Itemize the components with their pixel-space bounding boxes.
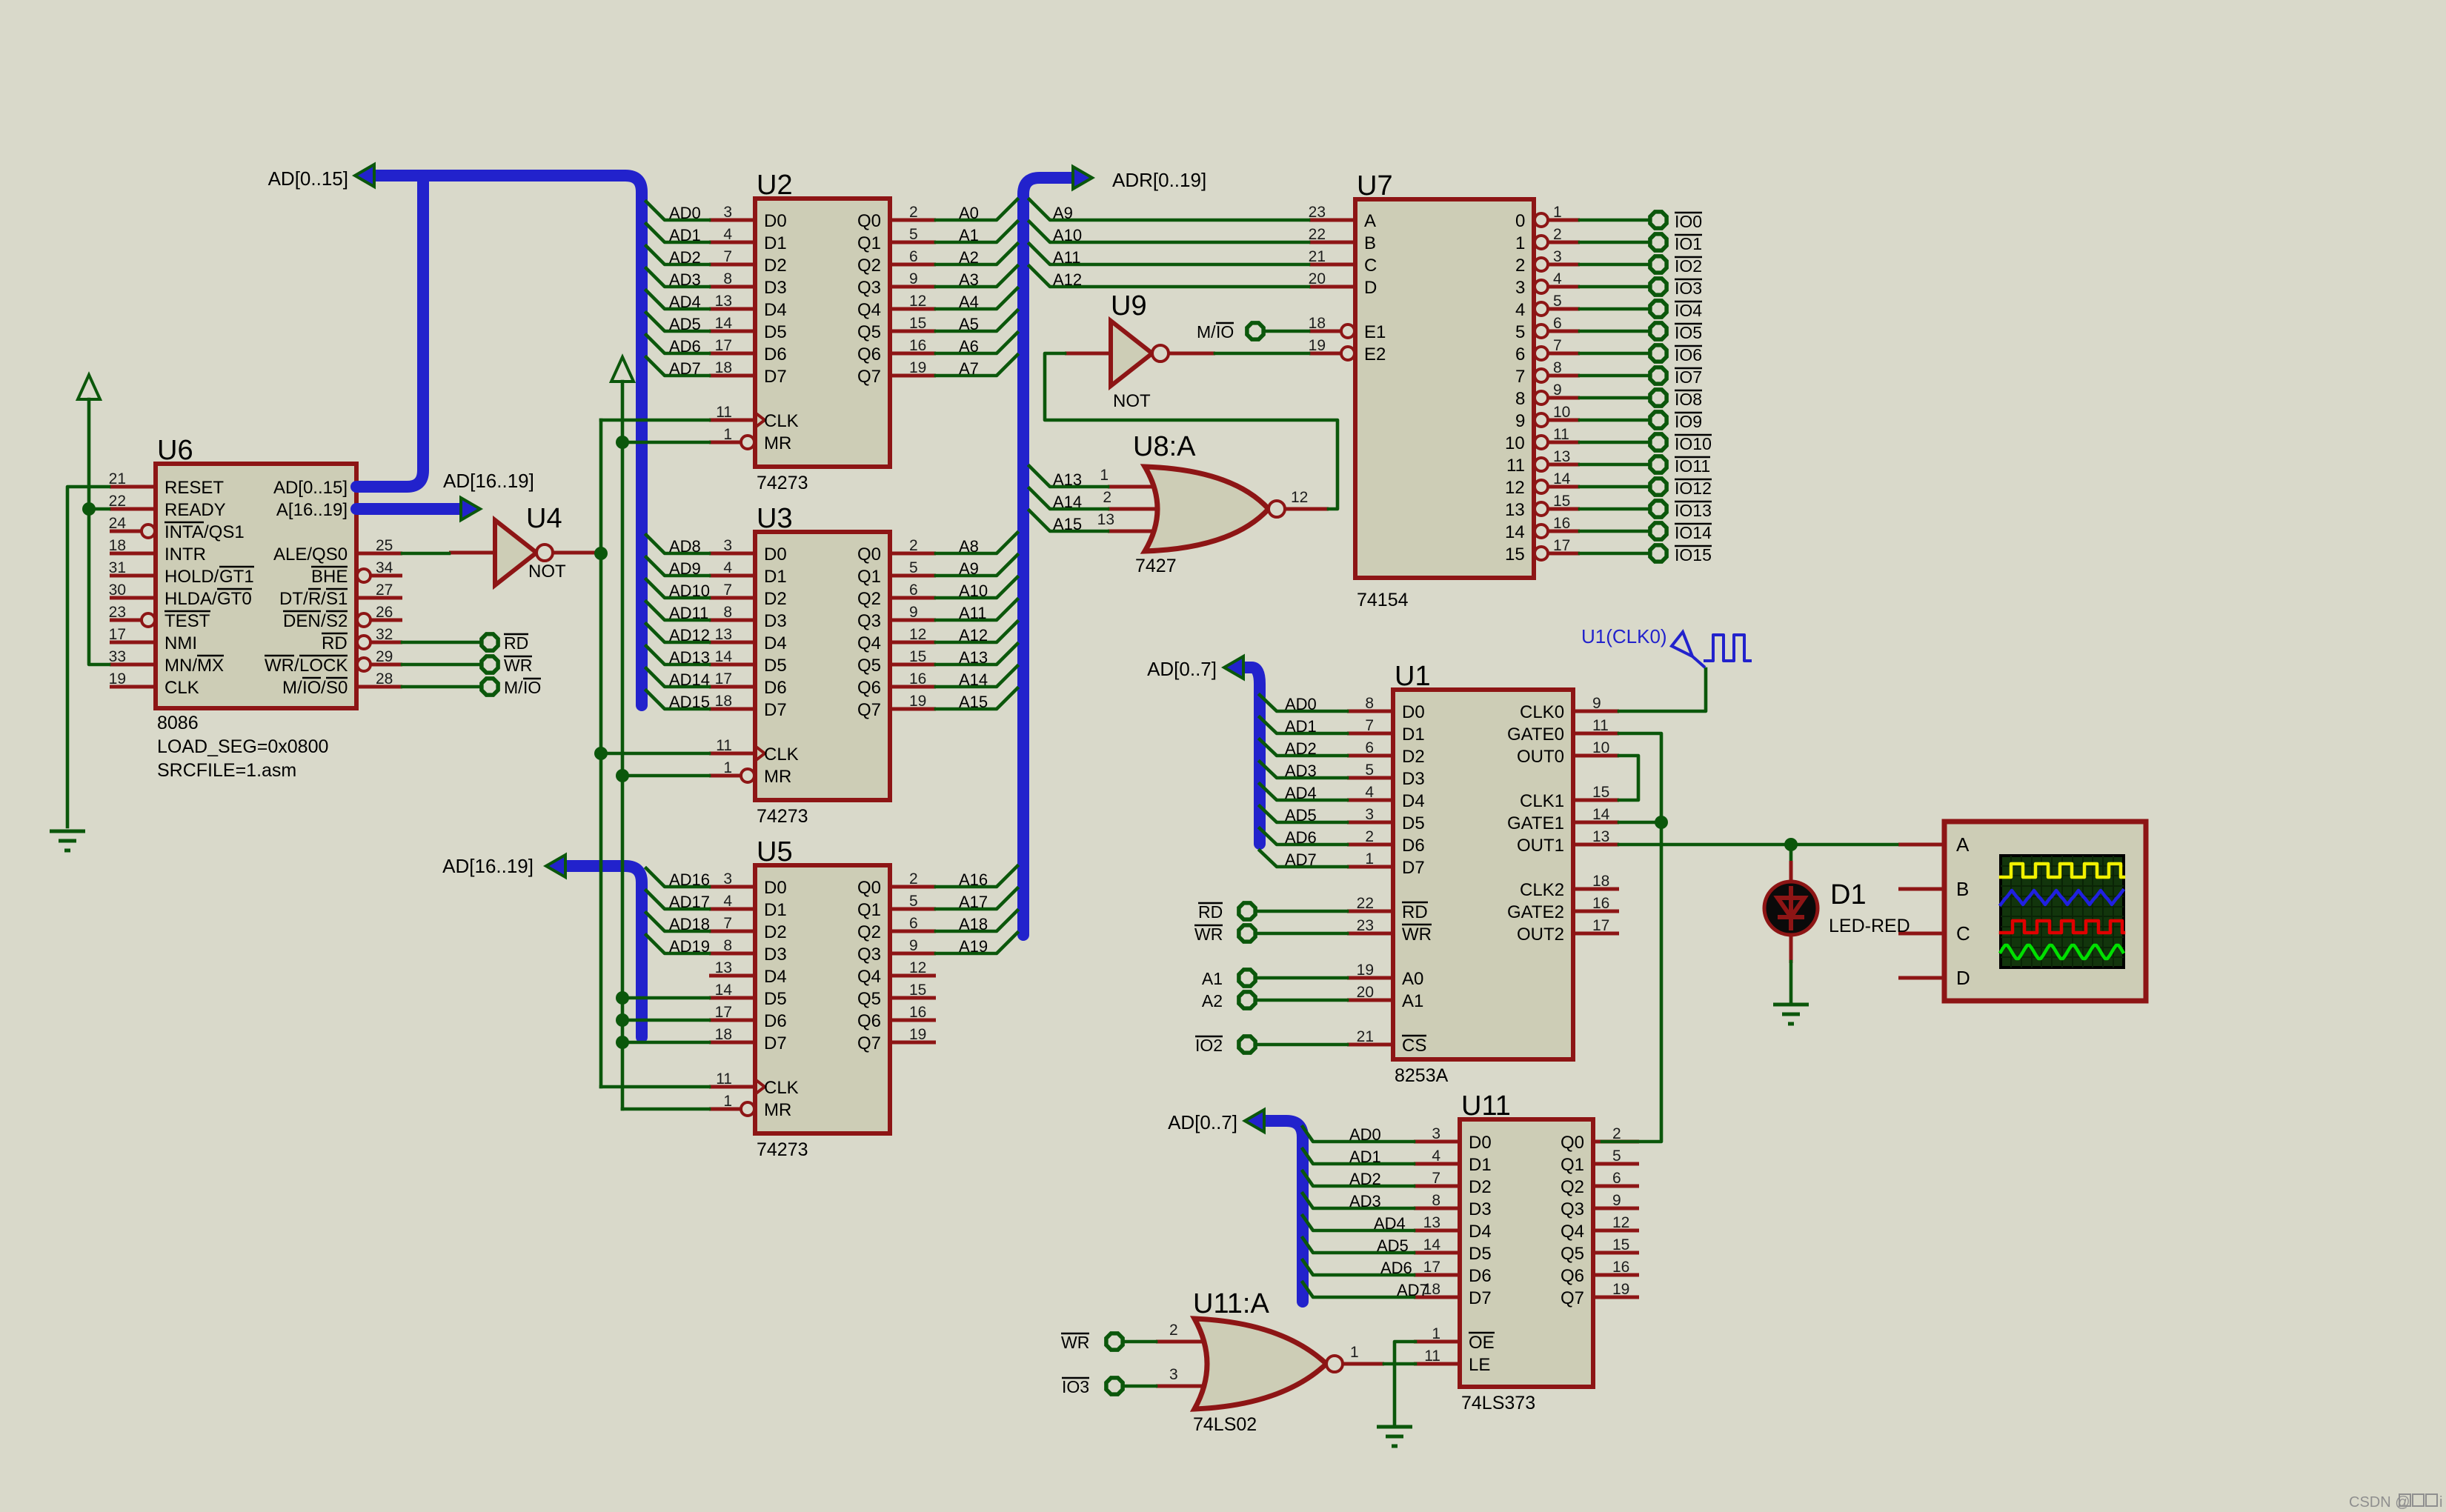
svg-text:IO0: IO0 [1675, 212, 1702, 231]
svg-text:AD1: AD1 [1285, 717, 1317, 736]
watermark CSDN [2349, 1494, 2442, 1511]
wire U7 output 7 to terminal IO7 [1580, 374, 1650, 378]
terminal IO15 at U7 output 15 [1650, 545, 1712, 564]
wire A1 from U2 Q1 to ADR bus [936, 222, 1017, 244]
svg-text:28: 28 [376, 670, 393, 687]
svg-text:11: 11 [716, 404, 732, 421]
svg-text:D4: D4 [764, 633, 787, 653]
svg-text:3: 3 [1432, 1125, 1440, 1142]
svg-text:3: 3 [723, 204, 732, 221]
svg-text:Q5: Q5 [857, 656, 881, 676]
svg-text:22: 22 [109, 493, 126, 510]
svg-text:IO6: IO6 [1675, 345, 1702, 364]
svg-text:A14: A14 [1053, 493, 1082, 511]
svg-text:22: 22 [1309, 226, 1326, 243]
svg-text:Q0: Q0 [857, 878, 881, 898]
wire AD2 bus tap to U2 D2 [646, 246, 709, 267]
svg-text:E2: E2 [1364, 344, 1386, 364]
svg-text:8: 8 [723, 270, 732, 287]
svg-text:2: 2 [1103, 489, 1111, 506]
svg-text:D0: D0 [1469, 1133, 1492, 1153]
svg-text:1: 1 [723, 426, 732, 443]
wire U6 M/IO to terminal [402, 685, 482, 689]
svg-text:5: 5 [1365, 762, 1374, 779]
wire U6 ALE through U4 to latch clocks [402, 552, 601, 556]
svg-text:WR: WR [1402, 925, 1432, 945]
svg-text:7: 7 [723, 248, 732, 265]
74273 latch U2 [709, 170, 936, 493]
wire AD1 bus tap to U1 D1 [1260, 717, 1347, 736]
svg-text:74273: 74273 [757, 806, 808, 827]
terminal RD at U1 [1198, 902, 1255, 922]
svg-text:34: 34 [376, 559, 393, 576]
svg-text:3: 3 [1553, 248, 1562, 265]
svg-text:D6: D6 [1469, 1266, 1492, 1286]
terminal RD near U6 [482, 633, 528, 653]
svg-text:IO: IO [523, 678, 541, 697]
wire A10 ADR bus to U7 pin 22 [1029, 222, 1309, 244]
bus AD[0..7] into U11 with arrow and label [1168, 1110, 1303, 1302]
svg-text:Q3: Q3 [857, 611, 881, 631]
svg-text:U4: U4 [526, 503, 562, 534]
wire AD10 bus tap to U3 D2 [646, 579, 710, 600]
bus A[16..19] from U6 with arrow and label AD[16..19] [356, 470, 534, 520]
svg-text:3: 3 [1515, 278, 1525, 298]
wire A19 from U5 Q3 to ADR bus [936, 933, 1017, 956]
svg-text:12: 12 [909, 293, 926, 310]
svg-text:32: 32 [376, 626, 393, 643]
terminal IO2 at U7 output 2 [1650, 256, 1702, 276]
svg-text:Q0: Q0 [857, 544, 881, 564]
svg-text:16: 16 [1553, 515, 1570, 532]
svg-text:ALE/QS0: ALE/QS0 [273, 544, 348, 564]
svg-text:A: A [1364, 211, 1376, 231]
wire AD6 bus tap to U1 D6 [1260, 828, 1347, 847]
svg-text:25: 25 [376, 537, 393, 554]
svg-text:14: 14 [715, 648, 733, 665]
74LS373 latch U11 [1414, 1090, 1639, 1413]
svg-text:IO7: IO7 [1675, 367, 1702, 387]
svg-text:11: 11 [1592, 717, 1609, 734]
svg-text:Q4: Q4 [857, 967, 881, 987]
svg-text:/: / [321, 589, 326, 609]
ground symbol below U6 RESET [50, 831, 85, 850]
svg-text:B: B [1956, 878, 1969, 900]
svg-text:AD6: AD6 [1380, 1259, 1412, 1277]
svg-text:5: 5 [909, 893, 918, 910]
wire U11 OE to ground [1395, 1342, 1415, 1424]
svg-text:D2: D2 [764, 589, 787, 609]
wire A15 ADR bus to U8:A input [1029, 510, 1108, 533]
svg-text:GATE2: GATE2 [1507, 902, 1564, 922]
svg-text:D6: D6 [1402, 836, 1425, 856]
svg-text:D4: D4 [1469, 1222, 1492, 1242]
svg-text:19: 19 [109, 670, 126, 687]
terminal IO7 at U7 output 7 [1650, 367, 1702, 387]
svg-text:IO: IO [302, 678, 321, 698]
wire AD5 bus tap to U2 D5 [646, 313, 709, 333]
terminal IO3 at U11:A input [1062, 1377, 1123, 1396]
svg-text:AD0: AD0 [669, 204, 701, 222]
svg-text:7: 7 [1365, 717, 1374, 734]
svg-text:16: 16 [909, 1004, 926, 1021]
svg-text:LE: LE [1469, 1355, 1490, 1375]
svg-text:S1: S1 [326, 589, 348, 609]
wire AD17 bus tap to U5 D1 [646, 890, 710, 911]
svg-text:11: 11 [1553, 426, 1569, 443]
wire AD0 bus tap to U2 D0 [646, 202, 709, 222]
svg-text:D1: D1 [1830, 879, 1867, 910]
svg-text:NOT: NOT [528, 562, 566, 582]
svg-text:16: 16 [909, 337, 926, 354]
terminal IO1 at U7 output 1 [1650, 234, 1702, 253]
wire U7 output 13 to terminal IO13 [1580, 507, 1650, 511]
wire A11 ADR bus to U7 pin 21 [1029, 244, 1309, 267]
svg-text:Q0: Q0 [857, 211, 881, 231]
wire A7 from U2 Q7 to ADR bus [936, 355, 1017, 378]
svg-text:AD2: AD2 [1285, 739, 1317, 758]
svg-text:Q5: Q5 [857, 322, 881, 342]
svg-text:OUT2: OUT2 [1517, 925, 1564, 945]
svg-text:AD[16..19]: AD[16..19] [442, 855, 534, 877]
svg-text:GATE1: GATE1 [1507, 813, 1564, 833]
svg-text:74LS373: 74LS373 [1461, 1393, 1535, 1413]
svg-text:AD2: AD2 [669, 248, 701, 267]
svg-text:19: 19 [909, 359, 926, 376]
svg-text:IO2: IO2 [1675, 256, 1702, 276]
svg-text:AD15: AD15 [669, 693, 710, 711]
svg-text:6: 6 [909, 915, 918, 932]
svg-text:Q7: Q7 [1561, 1288, 1584, 1308]
svg-text:13: 13 [715, 293, 732, 310]
svg-text:D6: D6 [764, 678, 787, 698]
wire A6 from U2 Q6 to ADR bus [936, 333, 1017, 356]
svg-text:31: 31 [109, 559, 126, 576]
svg-text:2: 2 [1169, 1322, 1178, 1339]
ground symbol below U11 OE [1377, 1427, 1412, 1446]
svg-text:A: A [1956, 833, 1970, 856]
svg-text:12: 12 [1612, 1214, 1629, 1231]
svg-text:U8:A: U8:A [1133, 431, 1196, 462]
terminal IO0 at U7 output 0 [1650, 212, 1702, 231]
svg-text:5: 5 [1553, 293, 1562, 310]
svg-text:IO3: IO3 [1062, 1377, 1089, 1396]
svg-text:M/: M/ [504, 678, 523, 697]
svg-text:2: 2 [909, 870, 918, 887]
svg-text:A3: A3 [959, 270, 979, 289]
svg-text:A9: A9 [1053, 204, 1073, 222]
svg-text:CLK1: CLK1 [1520, 791, 1564, 811]
svg-text:CLK: CLK [764, 1078, 799, 1098]
svg-text:D7: D7 [764, 367, 787, 387]
wire U9 output to U7 E2 [1215, 352, 1309, 356]
wire AD19 bus tap to U5 D3 [646, 935, 710, 956]
svg-text:8: 8 [1432, 1192, 1440, 1209]
svg-text:AD7: AD7 [1397, 1281, 1429, 1299]
svg-text:A4: A4 [959, 293, 979, 311]
svg-text:D7: D7 [1469, 1288, 1492, 1308]
svg-text:Q7: Q7 [857, 1033, 881, 1053]
svg-text:11: 11 [1506, 456, 1525, 476]
svg-text:9: 9 [1515, 411, 1525, 431]
svg-text:U1(CLK0): U1(CLK0) [1581, 625, 1667, 647]
svg-text:20: 20 [1309, 270, 1326, 287]
svg-text:0: 0 [1515, 211, 1525, 231]
wire U7 output 9 to terminal IO9 [1580, 419, 1650, 422]
svg-text:23: 23 [1309, 204, 1326, 221]
svg-text:AD7: AD7 [1285, 850, 1317, 869]
svg-text:19: 19 [1357, 962, 1374, 979]
svg-text:AD3: AD3 [1349, 1192, 1381, 1210]
svg-text:ADR[0..19]: ADR[0..19] [1112, 169, 1206, 191]
svg-text:RD: RD [1402, 902, 1428, 922]
wire LED D1 anode from OUT1 junction [1789, 845, 1793, 882]
wire A17 from U5 Q1 to ADR bus [936, 888, 1017, 911]
svg-text:IO9: IO9 [1675, 412, 1702, 431]
svg-text:CSDN @: CSDN @ [2349, 1494, 2410, 1511]
svg-text:IO15: IO15 [1675, 545, 1712, 564]
svg-text:OUT0: OUT0 [1517, 747, 1564, 767]
svg-text:RD: RD [504, 633, 528, 653]
svg-text:D1: D1 [764, 900, 787, 920]
svg-text:1: 1 [723, 759, 732, 776]
wire AD7 bus tap to U2 D7 [646, 357, 709, 378]
svg-text:74273: 74273 [757, 1139, 808, 1160]
svg-text:12: 12 [909, 959, 926, 976]
svg-text:WR: WR [265, 656, 294, 676]
svg-text:U3: U3 [757, 503, 793, 534]
svg-text:AD4: AD4 [1285, 784, 1317, 802]
wire LED D1 cathode to ground [1789, 934, 1793, 1002]
svg-text:2: 2 [909, 537, 918, 554]
svg-text:D4: D4 [764, 300, 787, 320]
svg-text:17: 17 [1592, 917, 1609, 934]
svg-text:Q2: Q2 [857, 256, 881, 276]
svg-text:30: 30 [109, 582, 126, 599]
terminal IO10 at U7 output 10 [1650, 434, 1712, 453]
svg-text:A1: A1 [959, 226, 979, 244]
svg-text:17: 17 [715, 1004, 732, 1021]
wire U6 WR/LOCK to terminal [402, 663, 482, 667]
svg-text:CLK: CLK [164, 678, 199, 698]
svg-text:U1: U1 [1395, 661, 1431, 692]
svg-text:D5: D5 [1469, 1244, 1492, 1264]
wire U7 output 8 to terminal IO8 [1580, 396, 1650, 400]
wire WR terminal to U1 [1255, 932, 1347, 936]
svg-text:7: 7 [1553, 337, 1562, 354]
svg-text:A11: A11 [1053, 248, 1081, 267]
inverter U9 (NOT) with labels [1065, 290, 1215, 411]
svg-text:D6: D6 [764, 1011, 787, 1031]
wire A15 from U3 Q7 to ADR bus [936, 688, 1017, 711]
svg-text:15: 15 [909, 648, 926, 665]
svg-text:AD19: AD19 [669, 937, 710, 956]
svg-text:CS: CS [1402, 1036, 1426, 1056]
svg-text:6: 6 [1612, 1170, 1621, 1187]
svg-text:HLDA/: HLDA/ [164, 589, 217, 609]
ground symbol below LED D1 [1773, 1005, 1809, 1024]
svg-text:LOCK: LOCK [299, 656, 348, 676]
svg-text:Q1: Q1 [857, 567, 881, 587]
wire U7 output 1 to terminal IO1 [1580, 241, 1650, 244]
svg-text:TEST: TEST [164, 611, 210, 631]
terminal WR at U1 [1194, 925, 1255, 944]
wire U7 output 12 to terminal IO12 [1580, 485, 1650, 489]
svg-text:12: 12 [1505, 478, 1525, 498]
svg-text:74LS02: 74LS02 [1193, 1414, 1257, 1435]
svg-text:WR: WR [504, 656, 532, 675]
svg-text:A10: A10 [959, 582, 988, 600]
svg-text:A1: A1 [1402, 991, 1423, 1011]
svg-text:A2: A2 [1202, 991, 1223, 1010]
svg-text:LED-RED: LED-RED [1829, 916, 1910, 936]
wire A3 from U2 Q3 to ADR bus [936, 266, 1017, 289]
svg-text:D1: D1 [1469, 1155, 1492, 1175]
wire AD2 bus tap to U1 D2 [1260, 739, 1347, 758]
svg-text:AD18: AD18 [669, 915, 710, 933]
svg-text:AD1: AD1 [669, 226, 701, 244]
svg-text:8: 8 [1553, 359, 1562, 376]
svg-text:D5: D5 [764, 322, 787, 342]
svg-text:AD3: AD3 [669, 270, 701, 289]
svg-text:AD3: AD3 [1285, 762, 1317, 780]
svg-text:14: 14 [715, 315, 733, 332]
wire U7 output 0 to terminal IO0 [1580, 219, 1650, 222]
svg-text:7: 7 [1515, 367, 1525, 387]
svg-text:AD10: AD10 [669, 582, 710, 600]
svg-text:S0: S0 [326, 678, 348, 698]
svg-text:AD8: AD8 [669, 537, 701, 556]
svg-text:1: 1 [723, 1093, 732, 1110]
svg-text:IO3: IO3 [1675, 279, 1702, 298]
terminal IO6 at U7 output 6 [1650, 345, 1702, 364]
svg-text:9: 9 [1612, 1192, 1621, 1209]
svg-text:RESET: RESET [164, 478, 224, 498]
svg-text:IO12: IO12 [1675, 479, 1712, 498]
svg-text:A8: A8 [959, 537, 979, 556]
svg-text:MX: MX [197, 656, 224, 676]
wire AD9 bus tap to U3 D1 [646, 557, 709, 578]
svg-text:IO5: IO5 [1675, 323, 1702, 342]
svg-text:E1: E1 [1364, 322, 1386, 342]
wire U7 output 15 to terminal IO15 [1580, 552, 1650, 556]
svg-text:AD5: AD5 [1377, 1236, 1409, 1255]
wire AD2 bus tap to U11 D2 [1303, 1170, 1414, 1188]
svg-text:Q3: Q3 [1561, 1199, 1584, 1219]
svg-text:2: 2 [1612, 1125, 1621, 1142]
wire U6 RESET to ground [67, 487, 109, 827]
svg-text:U11:A: U11:A [1193, 1288, 1269, 1319]
svg-text:16: 16 [909, 670, 926, 687]
bus ADR[0..19] with arrow and label [1023, 167, 1206, 935]
svg-text:AD[0..7]: AD[0..7] [1147, 658, 1217, 680]
svg-text:8: 8 [1365, 695, 1374, 712]
svg-text:D2: D2 [764, 922, 787, 942]
svg-text:/: / [321, 678, 326, 698]
svg-text:M/: M/ [1197, 322, 1216, 342]
svg-text:U7: U7 [1357, 170, 1393, 202]
svg-text:13: 13 [1553, 448, 1570, 465]
svg-text:5: 5 [909, 559, 918, 576]
wire AD4 bus tap to U2 D4 [646, 290, 709, 311]
2-input NOR gate U11:A (74LS02) [1156, 1288, 1384, 1435]
wire latch clock line U4 output down to U2 U3 U5 CLK [594, 420, 709, 1087]
svg-text:D7: D7 [764, 1033, 787, 1053]
wire U7 output 5 to terminal IO5 [1580, 330, 1650, 333]
wire U7 output 3 to terminal IO3 [1580, 285, 1650, 289]
svg-text:33: 33 [109, 648, 126, 665]
svg-text:AD[0..15]: AD[0..15] [268, 167, 348, 190]
svg-text:AD0: AD0 [1285, 695, 1317, 713]
svg-text:16: 16 [1612, 1259, 1629, 1276]
wire U1 OUT0 loop to CLK1 [1619, 756, 1638, 800]
svg-text:IO2: IO2 [1195, 1036, 1223, 1055]
svg-text:AD[0..7]: AD[0..7] [1168, 1111, 1237, 1133]
terminal A2 at U1 [1202, 991, 1255, 1010]
svg-text:D: D [1364, 278, 1377, 298]
svg-text:IO10: IO10 [1675, 434, 1712, 453]
svg-text:14: 14 [1505, 522, 1525, 542]
svg-text:5: 5 [1612, 1148, 1621, 1165]
svg-text:74154: 74154 [1357, 590, 1409, 610]
wire AD14 bus tap to U3 D6 [646, 668, 710, 689]
svg-text:MR: MR [764, 1100, 791, 1120]
terminal IO5 at U7 output 5 [1650, 323, 1702, 342]
74273 latch U3 [709, 503, 936, 827]
svg-text:Q7: Q7 [857, 700, 881, 720]
svg-text:A[16..19]: A[16..19] [276, 500, 348, 520]
svg-text:29: 29 [376, 648, 393, 665]
svg-text:RD: RD [1198, 902, 1223, 922]
svg-text:D3: D3 [764, 945, 787, 965]
wire A14 ADR bus to U8:A input [1029, 488, 1108, 511]
svg-text:AD5: AD5 [1285, 806, 1317, 825]
wire AD15 bus tap to U3 D7 [646, 690, 710, 711]
wire AD5 bus tap to U11 D5 [1303, 1236, 1414, 1255]
terminal IO8 at U7 output 8 [1650, 390, 1702, 409]
svg-text:WR: WR [1061, 1333, 1089, 1352]
svg-text:C: C [1956, 922, 1970, 945]
svg-text:D2: D2 [1402, 747, 1425, 767]
wire AD5 bus tap to U1 D5 [1260, 806, 1347, 825]
svg-text:26: 26 [376, 604, 393, 621]
svg-text:Q2: Q2 [857, 589, 881, 609]
wire AD16 bus tap to U5 D0 [646, 868, 710, 889]
svg-text:MR: MR [764, 767, 791, 787]
svg-text:i: i [2439, 1494, 2442, 1511]
terminal WR near U6 [482, 656, 532, 675]
svg-text:A13: A13 [959, 648, 988, 667]
terminal IO14 at U7 output 14 [1650, 523, 1712, 542]
svg-text:Q6: Q6 [1561, 1266, 1584, 1286]
svg-text:14: 14 [715, 982, 733, 999]
svg-text:5: 5 [1515, 322, 1525, 342]
svg-text:NOT: NOT [1113, 391, 1151, 411]
svg-text:15: 15 [1592, 784, 1609, 801]
svg-text:U11: U11 [1461, 1090, 1511, 1122]
svg-text:CLK2: CLK2 [1520, 880, 1564, 900]
wire U7 output 11 to terminal IO11 [1580, 463, 1650, 467]
svg-text:22: 22 [1357, 895, 1374, 912]
svg-text:IO13: IO13 [1675, 501, 1712, 520]
svg-text:2: 2 [909, 204, 918, 221]
svg-text:1: 1 [1365, 850, 1374, 867]
svg-text:Q6: Q6 [857, 344, 881, 364]
svg-text:1: 1 [1515, 233, 1525, 253]
svg-text:MN/: MN/ [164, 656, 197, 676]
svg-text:D5: D5 [1402, 813, 1425, 833]
svg-text:IO11: IO11 [1675, 456, 1710, 476]
